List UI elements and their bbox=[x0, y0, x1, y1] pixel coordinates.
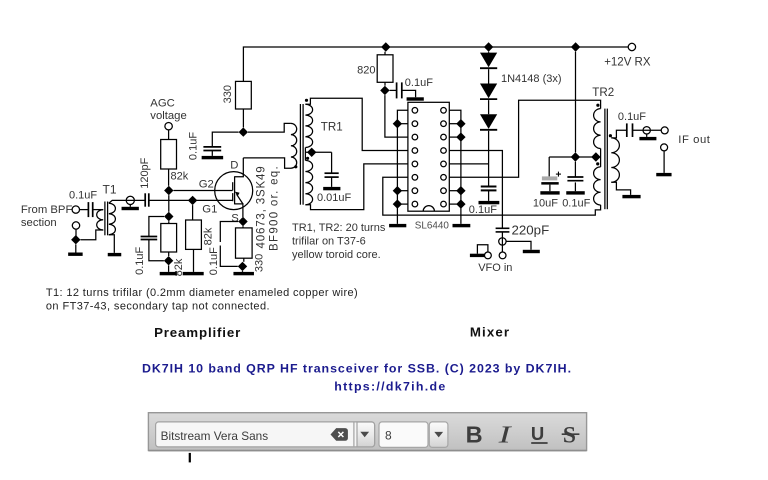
ground (T1 secondary) bbox=[108, 253, 122, 256]
wire U1 pin 7 stub bbox=[397, 190, 408, 192]
junction R2/C3 ground node bbox=[164, 256, 173, 265]
resistor R1 82k (AGC series) bbox=[161, 140, 177, 170]
ground (R3) bbox=[183, 272, 204, 275]
ground (source network) bbox=[233, 272, 254, 275]
wire G1 node to R3 bbox=[192, 205, 194, 220]
wire J1 pin2 down bbox=[75, 229, 77, 236]
wire T1 secondary top lead bbox=[109, 200, 145, 203]
wire C12 through IF jack to plug bbox=[633, 129, 661, 131]
italic button bbox=[497, 421, 512, 448]
diode D1 1N4148 bbox=[480, 53, 497, 69]
capacitor C2 120pF bbox=[145, 193, 149, 206]
svg-text:https://dk7ih.de: https://dk7ih.de bbox=[334, 380, 446, 394]
svg-text:From BPF: From BPF bbox=[21, 204, 73, 216]
svg-text:0.1uF: 0.1uF bbox=[208, 247, 220, 275]
svg-text:G2: G2 bbox=[199, 178, 214, 190]
transformer TR1 secondary winding lower half bbox=[305, 160, 312, 204]
junction left bus pin 8 bbox=[393, 199, 402, 208]
svg-text:0.1uF: 0.1uF bbox=[188, 132, 200, 160]
diode D2 1N4148 bbox=[480, 84, 497, 100]
U1 left pin 3 bbox=[412, 134, 418, 140]
junction right bus pin 15 bbox=[456, 119, 465, 128]
junction AGC divider node bbox=[164, 212, 173, 221]
capacitor C12 0.1uF (IF coupling) bbox=[627, 123, 633, 137]
text cursor bbox=[189, 453, 191, 463]
wire source node to R4 bbox=[242, 226, 244, 228]
svg-text:DK7IH 10 band QRP HF transceiv: DK7IH 10 band QRP HF transceiver for SSB… bbox=[142, 361, 572, 375]
transformer TR2 core bbox=[605, 109, 607, 210]
svg-text:S: S bbox=[563, 423, 576, 449]
ground (coax shield) bbox=[122, 207, 139, 210]
phase dot TR2 secondary bbox=[609, 134, 612, 137]
svg-text:Mixer: Mixer bbox=[470, 325, 510, 340]
svg-text:40673, 3SK49: 40673, 3SK49 bbox=[256, 165, 268, 248]
wire C8 to ground bbox=[488, 191, 490, 201]
svg-text:SL6440: SL6440 bbox=[415, 221, 450, 232]
svg-text:D: D bbox=[230, 160, 238, 172]
wire rail to D1 bbox=[488, 51, 490, 54]
transformer TR2 primary winding lower half bbox=[594, 167, 601, 205]
wire IF jack shell to ground bbox=[646, 134, 648, 137]
wire R5 to drain node bbox=[242, 109, 244, 127]
junction source node bbox=[238, 217, 247, 226]
svg-text:82k: 82k bbox=[202, 227, 214, 245]
wire U1 pin 10 stub bbox=[449, 190, 461, 192]
wire U1 pin 6 to TR2 primary bottom bbox=[383, 177, 601, 215]
wire C2 to G1 (gate 1 line) bbox=[149, 199, 233, 201]
svg-text:B: B bbox=[466, 422, 483, 448]
phase dot TR1 secondary tap bbox=[306, 157, 309, 160]
wire tap to C10 bbox=[548, 157, 550, 176]
terminal IF jack (signal) bbox=[643, 127, 650, 134]
wire U1 pin 14 stub bbox=[449, 136, 461, 138]
junction tap at winding bbox=[591, 152, 600, 161]
capacitor C11 0.1uF bbox=[567, 177, 583, 181]
junction input ground node bbox=[71, 235, 80, 244]
wire R6 node to U1 pin 3 bbox=[385, 95, 408, 137]
ground (TR2 secondary) bbox=[622, 195, 640, 198]
svg-text:220pF: 220pF bbox=[512, 223, 550, 238]
wire C1 to T1 primary top bbox=[93, 209, 103, 211]
terminal IF plug (ground) bbox=[661, 144, 668, 151]
svg-text:on FT37-43, secondary tap not: on FT37-43, secondary tap not connected. bbox=[46, 301, 270, 313]
junction R4/C4 ground node bbox=[238, 262, 247, 271]
wire D3 to bias node/C8 bbox=[488, 131, 490, 186]
font size combo box bbox=[379, 422, 428, 448]
ground (C6) bbox=[323, 187, 340, 190]
svg-text:T1: T1 bbox=[103, 182, 117, 196]
wire TR2 secondary bottom to ground bbox=[611, 182, 630, 195]
capacitor C10 10uF (electrolytic) bbox=[542, 176, 557, 180]
wire to ground bbox=[242, 271, 244, 273]
wire U1 pin 13 to C9 (crosses diode column) bbox=[449, 151, 502, 229]
capacitor C6 0.01uF bbox=[325, 173, 339, 177]
capacitor C3 0.1uF (AGC bypass) bbox=[141, 237, 158, 240]
U1 left pin 8 bbox=[412, 201, 418, 207]
U1 right pin 15 bbox=[441, 121, 447, 127]
label C10 plus bbox=[556, 172, 561, 177]
junction TR1 center tap bbox=[307, 148, 316, 157]
clear (backspace) icon bbox=[331, 428, 348, 441]
U1 right pin 10 bbox=[441, 188, 447, 194]
svg-text:0.01uF: 0.01uF bbox=[317, 192, 352, 204]
wire VFO plug ground lead bbox=[477, 245, 488, 254]
U1 left pin 6 bbox=[412, 175, 418, 181]
svg-text:0.1uF: 0.1uF bbox=[469, 204, 497, 216]
wire U1 left ground bus bbox=[397, 110, 408, 224]
ground (C10) bbox=[540, 191, 559, 194]
junction G1 bias node bbox=[188, 196, 197, 205]
wire T1 primary bottom return bbox=[81, 230, 104, 240]
size dropdown arrow bbox=[434, 432, 443, 438]
svg-text:0.1uF: 0.1uF bbox=[618, 111, 646, 123]
U1 right pin 12 bbox=[441, 161, 447, 167]
svg-text:G1: G1 bbox=[202, 203, 217, 215]
svg-text:section: section bbox=[21, 217, 57, 229]
wire C6 to ground bbox=[331, 177, 333, 187]
capacitor C8 0.1uF (bias bypass) bbox=[481, 187, 497, 191]
wire node to C5 bbox=[212, 132, 238, 147]
svg-text:T1: 12 turns trifilar (0.2mm d: T1: 12 turns trifilar (0.2mm diameter en… bbox=[46, 287, 358, 299]
svg-text:Preamplifier: Preamplifier bbox=[154, 325, 241, 340]
svg-text:VFO in: VFO in bbox=[478, 262, 512, 274]
phase dot TR1 primary bbox=[294, 165, 297, 168]
junction right bus pin 9 bbox=[456, 199, 465, 208]
terminal +12V RX bbox=[628, 43, 635, 50]
ground (IF jack shell) bbox=[639, 137, 656, 140]
wire D1 to D2 bbox=[488, 69, 490, 83]
wire TR1 secondary bottom to U1 pin 5 bbox=[305, 164, 408, 210]
terminal (coax tap after T1) bbox=[126, 196, 134, 204]
U1 left pin 7 bbox=[412, 188, 418, 194]
transformer TR1 core bbox=[300, 104, 303, 205]
svg-text:1N4148 (3x): 1N4148 (3x) bbox=[501, 73, 562, 85]
svg-text:120pF: 120pF bbox=[139, 157, 151, 188]
ground (IF plug) bbox=[656, 173, 671, 176]
wire C4 to ground node bbox=[220, 246, 238, 267]
svg-text:10uF: 10uF bbox=[533, 198, 558, 210]
wire TR2 center tap line bbox=[549, 156, 600, 158]
capacitor C9 220pF bbox=[496, 228, 510, 232]
wire R3 to ground bbox=[193, 249, 195, 272]
U1 left pin 1 bbox=[412, 108, 418, 114]
svg-text:TR1: TR1 bbox=[321, 121, 343, 134]
wire J1 to C1 bbox=[80, 209, 89, 211]
svg-text:voltage: voltage bbox=[150, 110, 186, 122]
wire U1 pin 11 to TR2 primary top bbox=[449, 100, 600, 177]
wire C3 bottom to ground node bbox=[149, 240, 164, 261]
phase dot TR2 primary tap bbox=[596, 162, 599, 165]
junction right bus pin 14 bbox=[456, 132, 465, 141]
wire tap to ground stub bbox=[129, 204, 131, 207]
transistor Q1 dual-gate MOSFET 40673/3SK49/BF900 bbox=[215, 158, 253, 217]
wire C11 to ground bbox=[574, 182, 576, 191]
wire divider node to R2 bbox=[168, 221, 170, 223]
op-amp U1 SL6440 mixer IC body bbox=[408, 102, 449, 211]
ground (U1 left) bbox=[389, 224, 406, 227]
ground (AGC divider) bbox=[160, 272, 177, 275]
svg-text:+12V RX: +12V RX bbox=[604, 56, 651, 68]
transformer TR1 secondary winding upper half bbox=[305, 104, 312, 147]
svg-text:AGC: AGC bbox=[150, 97, 174, 109]
svg-text:330: 330 bbox=[253, 254, 265, 272]
terminal IF plug (signal) bbox=[661, 127, 668, 134]
wire R2 to ground node bbox=[168, 252, 170, 256]
capacitor C1 0.1uF (input coupling) bbox=[88, 202, 92, 217]
resistor R4 330 (source) bbox=[236, 228, 253, 258]
junction left bus pin 2 bbox=[393, 119, 402, 128]
wire node to C7 bbox=[390, 89, 397, 91]
wire IF plug ground lead bbox=[663, 151, 665, 173]
wire G2 node to gate 2 bbox=[174, 190, 233, 192]
wire C9 through VFO jack to plug bbox=[501, 232, 503, 252]
wire to C3 bbox=[149, 217, 164, 237]
junction right bus pin 10 bbox=[456, 186, 465, 195]
phase dot TR2 primary top bbox=[596, 104, 599, 107]
U1 right pin 14 bbox=[441, 134, 447, 140]
U1 left pin 4 bbox=[412, 148, 418, 154]
svg-text:yellow toroid core.: yellow toroid core. bbox=[292, 249, 381, 261]
resistor R6 820 bbox=[377, 55, 393, 83]
transformer T1 core bbox=[105, 202, 108, 236]
ground (input) bbox=[68, 253, 83, 256]
wire C5 to ground bbox=[211, 151, 213, 156]
svg-text:trifilar on T37-6: trifilar on T37-6 bbox=[292, 235, 366, 247]
wire TR1 center tap bbox=[305, 151, 331, 153]
terminal J1 pin 2 (ground) bbox=[72, 222, 79, 229]
U1 right pin 9 bbox=[441, 201, 447, 207]
wire tap to C6 bbox=[331, 152, 333, 173]
transformer T1 secondary winding bbox=[109, 203, 116, 235]
svg-text:I: I bbox=[497, 421, 512, 448]
wire VFO jack shell to ground bbox=[506, 241, 531, 249]
wire C10 to ground bbox=[549, 185, 551, 192]
wire D2 to D3 bbox=[488, 100, 490, 114]
ground (C5) bbox=[202, 156, 224, 159]
wire TR2 secondary top to C12 bbox=[611, 130, 626, 138]
transformer T1 primary winding bbox=[97, 210, 103, 230]
svg-text:330: 330 bbox=[222, 85, 234, 103]
junction R6 node bbox=[380, 86, 389, 95]
wire U1 pin 12 to diode bias node bbox=[449, 163, 488, 165]
terminal VFO jack (signal) bbox=[499, 238, 506, 245]
wire drain to TR1 primary bottom bbox=[243, 158, 291, 168]
transformer TR2 primary winding upper half bbox=[594, 109, 601, 149]
wire to ground bbox=[75, 244, 77, 252]
svg-text:TR2: TR2 bbox=[592, 86, 614, 99]
wire TR1 secondary spine at tap bbox=[304, 148, 306, 161]
U1 left pin 5 bbox=[412, 161, 418, 167]
phase dot TR1 secondary top bbox=[305, 99, 308, 102]
svg-text:U: U bbox=[531, 423, 544, 444]
wire U1 pin 9 stub bbox=[449, 203, 461, 205]
resistor R3 82k (G1 bias) bbox=[186, 220, 202, 249]
U1 right pin 11 bbox=[441, 175, 447, 181]
ground (VFO plug) bbox=[470, 254, 485, 257]
terminal AGC input bbox=[165, 123, 172, 130]
terminal VFO plug (signal) bbox=[499, 252, 506, 259]
svg-text:S: S bbox=[231, 212, 239, 224]
wire G2 node down (crosses G1 line) bbox=[168, 195, 170, 212]
svg-text:8: 8 bbox=[385, 428, 392, 442]
ground (VFO jack shell) bbox=[523, 250, 540, 253]
ground (C7) bbox=[407, 97, 424, 100]
wire rail to R6 bbox=[384, 52, 386, 55]
junction rail/diode chain bbox=[484, 42, 493, 51]
svg-text:820: 820 bbox=[357, 64, 375, 76]
wire drain node to TR1 primary top bbox=[248, 123, 291, 132]
U1 right pin 16 bbox=[441, 108, 447, 114]
wire TR1 secondary top to U1 pin 4 bbox=[305, 98, 408, 150]
wire U1 pin 15 stub bbox=[449, 123, 461, 125]
terminal J1 pin 1 (signal in) bbox=[72, 206, 79, 213]
svg-text:TR1, TR2: 20 turns: TR1, TR2: 20 turns bbox=[292, 222, 386, 234]
wire U1 pin 8 stub bbox=[397, 203, 408, 205]
capacitor C5 0.1uF (decoupling) bbox=[203, 147, 221, 151]
junction G2 node bbox=[164, 186, 173, 195]
wire AGC to R1 bbox=[168, 130, 170, 140]
svg-text:BF900 or. eq.: BF900 or. eq. bbox=[268, 165, 280, 251]
ground (C8) bbox=[479, 201, 500, 204]
junction tap/C11 bbox=[571, 152, 580, 161]
junction left bus pin 7 bbox=[393, 186, 402, 195]
wire U1 pin 2 stub bbox=[397, 123, 408, 125]
wire R1 to G2 node bbox=[168, 169, 170, 186]
capacitor C7 0.1uF (U1 supply bypass) bbox=[397, 82, 402, 98]
wire R4 to ground node bbox=[243, 258, 245, 262]
U1 orientation notch bbox=[423, 206, 434, 212]
wire R6 to node bbox=[384, 82, 386, 85]
svg-text:0.1uF: 0.1uF bbox=[405, 77, 433, 89]
wire TR2 primary spine at tap bbox=[600, 149, 602, 167]
font dropdown arrow bbox=[360, 432, 369, 438]
wire rail to TR2 center tap bbox=[575, 52, 577, 153]
wire to ground bbox=[168, 265, 170, 272]
svg-text:0.1uF: 0.1uF bbox=[562, 198, 590, 210]
font name combo box bbox=[156, 422, 375, 447]
transformer TR2 secondary winding bbox=[611, 138, 619, 182]
wire tap to C11 bbox=[574, 162, 576, 177]
svg-text:IF out: IF out bbox=[678, 134, 710, 146]
svg-text:0.1uF: 0.1uF bbox=[69, 189, 97, 201]
diode D3 1N4148 bbox=[480, 114, 497, 130]
ground (C11) bbox=[566, 191, 585, 194]
wire +12V rail bbox=[243, 47, 628, 81]
transformer TR1 primary winding bbox=[291, 123, 297, 168]
wire source to C4 bbox=[220, 222, 238, 243]
svg-text:0.1uF: 0.1uF bbox=[134, 246, 146, 274]
junction rail/TR2 tap bbox=[571, 42, 580, 51]
ground (U1 right) bbox=[453, 224, 471, 227]
svg-text:82k: 82k bbox=[171, 171, 189, 183]
resistor R5 330 (drain load) bbox=[236, 81, 252, 109]
wire C7 to ground bbox=[402, 90, 415, 97]
wire T1 secondary bottom to ground bbox=[109, 235, 115, 253]
junction drain load node bbox=[239, 127, 248, 136]
resistor R2 82k (AGC divider) bbox=[161, 224, 177, 253]
terminal VFO plug (ground) bbox=[485, 252, 492, 259]
svg-text:Bitstream Vera Sans: Bitstream Vera Sans bbox=[161, 429, 269, 443]
wire U1 right ground bus bbox=[449, 110, 461, 224]
junction rail/R6 bbox=[381, 42, 390, 51]
U1 right pin 13 bbox=[441, 148, 447, 154]
U1 left pin 2 bbox=[412, 121, 418, 127]
